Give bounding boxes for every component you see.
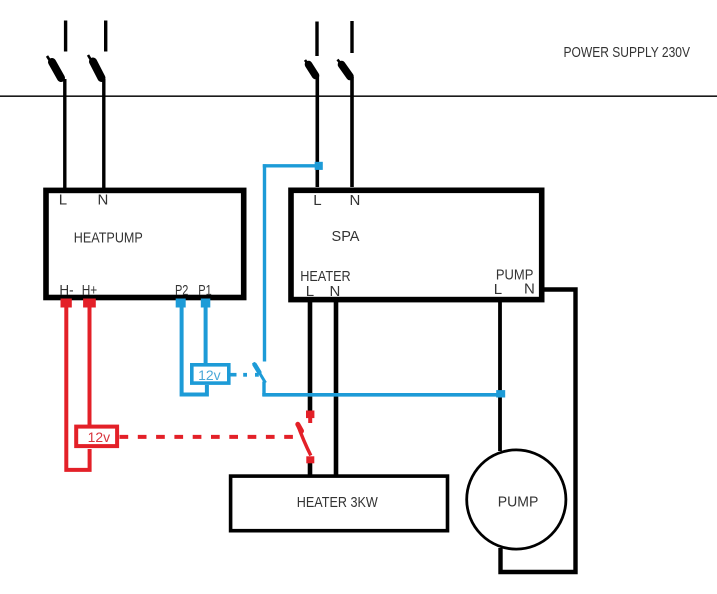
breaker SW2a (spa L) xyxy=(305,22,317,78)
wire P2 drop (blue) xyxy=(182,307,207,395)
label POWER SUPPLY 230V xyxy=(564,44,691,61)
wire spa pump N loop xyxy=(501,290,576,573)
label HEATPUMP xyxy=(74,229,143,246)
pin label N (spa) xyxy=(350,192,361,209)
label HEATER 3KW xyxy=(297,494,379,511)
switch blade blue S1 xyxy=(253,363,265,383)
svg-text:N: N xyxy=(98,192,109,209)
wire H+ drop (red) xyxy=(88,307,92,426)
terminal H- (red) xyxy=(61,299,72,308)
wire blue main horizontal xyxy=(262,393,500,397)
svg-text:L: L xyxy=(494,281,502,298)
svg-text:12v: 12v xyxy=(88,429,111,445)
pin label L (spa heater) xyxy=(306,283,314,300)
wire spa pump L xyxy=(498,300,502,451)
svg-text:POWER SUPPLY 230V: POWER SUPPLY 230V xyxy=(564,44,691,61)
svg-text:H-: H- xyxy=(59,282,73,299)
junction red bottom (heater L) xyxy=(306,456,314,463)
box SPA xyxy=(291,190,542,299)
breaker SW1b (heatpump N) xyxy=(88,21,106,82)
svg-text:P1: P1 xyxy=(198,282,211,299)
label SPA xyxy=(332,228,360,245)
svg-text:12v: 12v xyxy=(198,367,221,383)
junction blue on spa L xyxy=(315,162,323,170)
control link dotted (blue) xyxy=(231,373,259,377)
relay coil box 12v (blue) xyxy=(192,365,229,383)
svg-text:H+: H+ xyxy=(82,282,98,299)
svg-text:L: L xyxy=(59,192,67,209)
svg-text:N: N xyxy=(330,283,341,300)
label PUMP (motor) xyxy=(498,494,539,511)
pin label H- xyxy=(59,282,73,299)
junction blue at pump L xyxy=(496,390,505,397)
label 12v (blue) xyxy=(198,367,221,383)
wire P1 drop (blue) xyxy=(204,307,208,364)
breaker SW1a (heatpump L) xyxy=(47,21,66,82)
wire spa heater L lower xyxy=(308,462,313,477)
wire blue tap horizontal xyxy=(263,164,315,167)
relay coil box 12v (red) xyxy=(76,427,117,447)
box HEATPUMP xyxy=(46,190,244,297)
svg-text:SPA: SPA xyxy=(332,228,360,245)
pin label L (spa) xyxy=(313,192,321,209)
pin label H+ xyxy=(82,282,98,299)
pin label N (heatpump) xyxy=(98,192,109,209)
motor PUMP circle xyxy=(467,450,566,549)
svg-text:HEATER 3KW: HEATER 3KW xyxy=(297,494,379,511)
pin label P1 xyxy=(198,282,211,299)
pin label L (spa pump) xyxy=(494,281,502,298)
junction red top (heater L) xyxy=(306,411,314,419)
wire heatpump N drop xyxy=(102,79,105,188)
terminal P2 (blue) xyxy=(176,299,186,308)
svg-text:N: N xyxy=(524,281,535,298)
wire blue tap vertical xyxy=(263,164,266,361)
wire spa N drop xyxy=(350,77,354,187)
control link dashed (red) xyxy=(120,435,304,439)
wire H- drop (red) xyxy=(66,307,89,470)
pin label P2 xyxy=(175,282,188,299)
box HEATER 3KW xyxy=(231,476,448,531)
supply rail 230V xyxy=(0,95,717,97)
wire blue below switch xyxy=(262,382,265,397)
terminal P1 (blue) xyxy=(201,299,211,308)
wire spa L drop xyxy=(315,76,319,187)
svg-text:HEATPUMP: HEATPUMP xyxy=(74,229,143,246)
pin label L (heatpump) xyxy=(59,192,67,209)
label HEATER xyxy=(300,268,351,285)
switch blade red S2 xyxy=(297,423,311,456)
stub below red junction xyxy=(308,418,312,423)
wire spa heater L upper xyxy=(308,300,313,412)
pin label N (spa pump) xyxy=(524,281,535,298)
svg-text:P2: P2 xyxy=(175,282,188,299)
svg-text:L: L xyxy=(313,192,321,209)
svg-text:PUMP: PUMP xyxy=(498,494,539,511)
pin label N (spa heater) xyxy=(330,283,341,300)
svg-text:L: L xyxy=(306,283,314,300)
wire heatpump L drop xyxy=(63,79,66,188)
terminal H+ (red) xyxy=(83,299,96,308)
svg-text:N: N xyxy=(350,192,361,209)
breaker SW2b (spa N) xyxy=(338,21,353,79)
label 12v (red) xyxy=(88,429,111,445)
wire spa heater N xyxy=(334,300,339,477)
label PUMP xyxy=(496,267,534,284)
